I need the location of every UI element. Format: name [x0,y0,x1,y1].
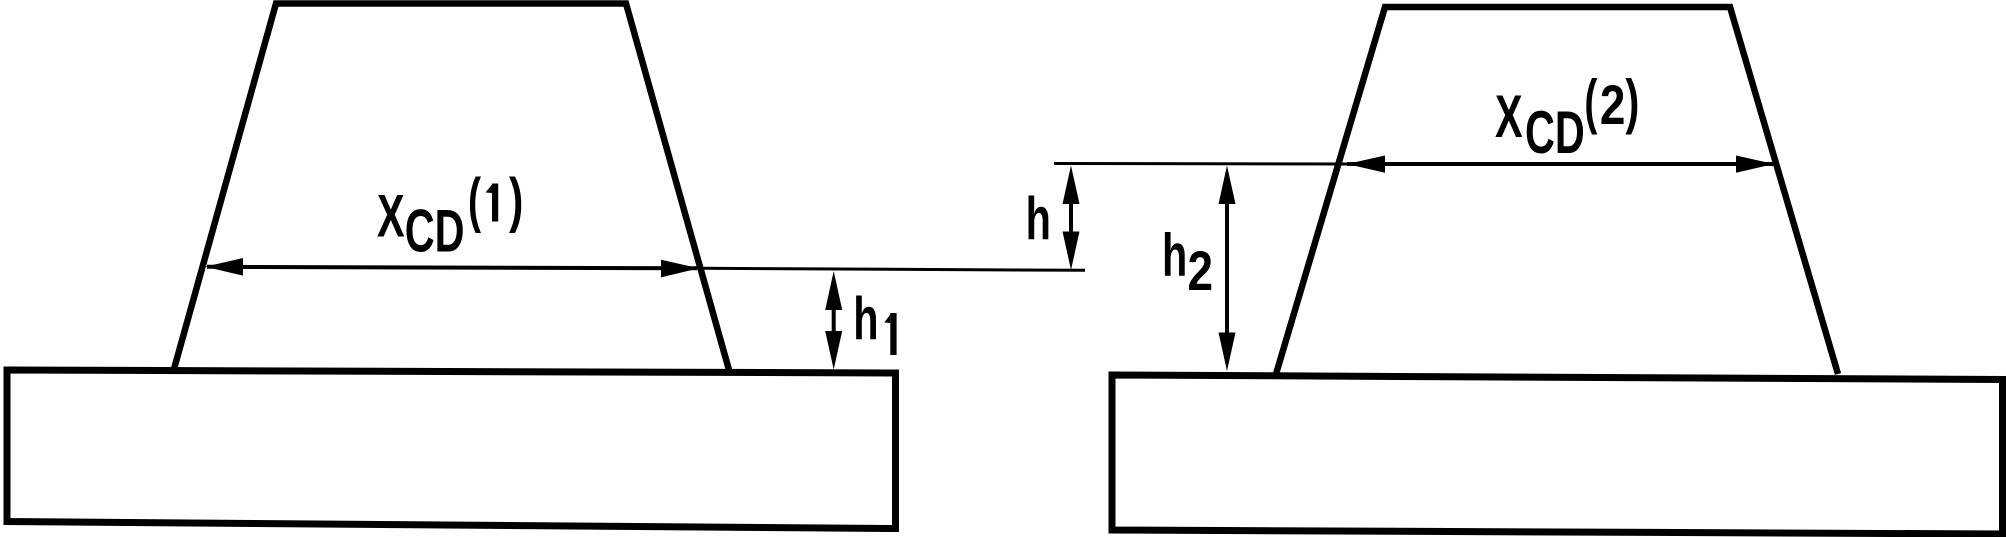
svg-text:2: 2 [1600,74,1626,136]
svg-text:h: h [853,285,878,353]
svg-text:2: 2 [1188,240,1214,302]
svg-text:): ) [509,168,523,235]
svg-text:(: ( [468,166,481,234]
svg-text:X: X [1495,82,1523,150]
svg-text:h: h [1162,221,1187,289]
svg-text:X: X [377,182,405,250]
svg-text:CD: CD [405,197,465,265]
svg-text:): ) [1625,68,1639,135]
svg-text:(: ( [1584,67,1597,135]
svg-text:h: h [1026,185,1051,253]
svg-text:CD: CD [1525,98,1585,166]
